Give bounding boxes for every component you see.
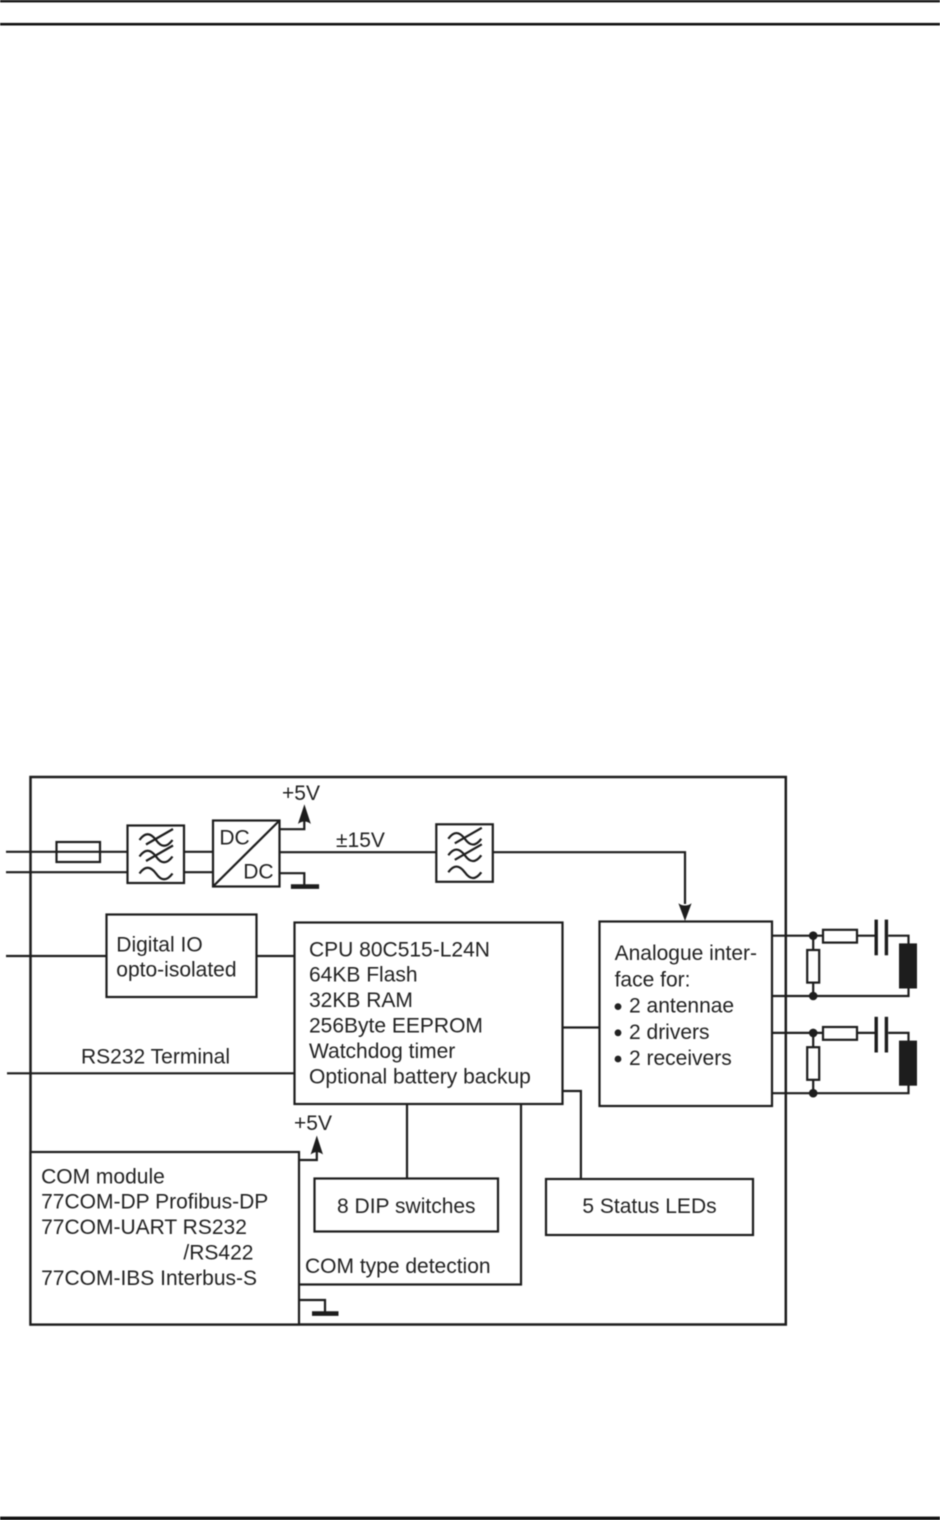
svg-text:Digital IO: Digital IO	[116, 933, 202, 956]
svg-text:5 Status LEDs: 5 Status LEDs	[582, 1195, 716, 1218]
svg-text:2 drivers: 2 drivers	[629, 1021, 710, 1044]
svg-text:32KB RAM: 32KB RAM	[309, 989, 413, 1012]
svg-text:256Byte EEPROM: 256Byte EEPROM	[309, 1015, 483, 1038]
svg-text:77COM-IBS Interbus-S: 77COM-IBS Interbus-S	[41, 1267, 257, 1290]
svg-text:DC: DC	[243, 861, 273, 884]
svg-text:Optional battery backup: Optional battery backup	[309, 1065, 531, 1088]
svg-text:DC: DC	[219, 827, 249, 850]
svg-text:8 DIP switches: 8 DIP switches	[337, 1195, 476, 1218]
svg-text:Analogue inter-: Analogue inter-	[615, 942, 757, 965]
svg-text:+5V: +5V	[282, 782, 320, 805]
svg-text:77COM-DP Profibus-DP: 77COM-DP Profibus-DP	[41, 1191, 268, 1214]
svg-text:77COM-UART RS232: 77COM-UART RS232	[41, 1216, 247, 1239]
svg-text:2 receivers: 2 receivers	[629, 1047, 732, 1070]
svg-text:CPU 80C515-L24N: CPU 80C515-L24N	[309, 938, 490, 961]
svg-text:2 antennae: 2 antennae	[629, 995, 734, 1018]
svg-text:opto-isolated: opto-isolated	[116, 959, 236, 982]
svg-text:face for:: face for:	[615, 968, 691, 991]
svg-text:Watchdog timer: Watchdog timer	[309, 1040, 455, 1063]
svg-text:64KB Flash: 64KB Flash	[309, 964, 418, 987]
svg-text:±15V: ±15V	[336, 829, 385, 852]
svg-text:COM module: COM module	[41, 1165, 165, 1188]
svg-text:+5V: +5V	[294, 1112, 332, 1135]
svg-text:RS232 Terminal: RS232 Terminal	[81, 1045, 230, 1068]
svg-text:/RS422: /RS422	[183, 1242, 253, 1265]
svg-text:COM type detection: COM type detection	[305, 1255, 491, 1278]
